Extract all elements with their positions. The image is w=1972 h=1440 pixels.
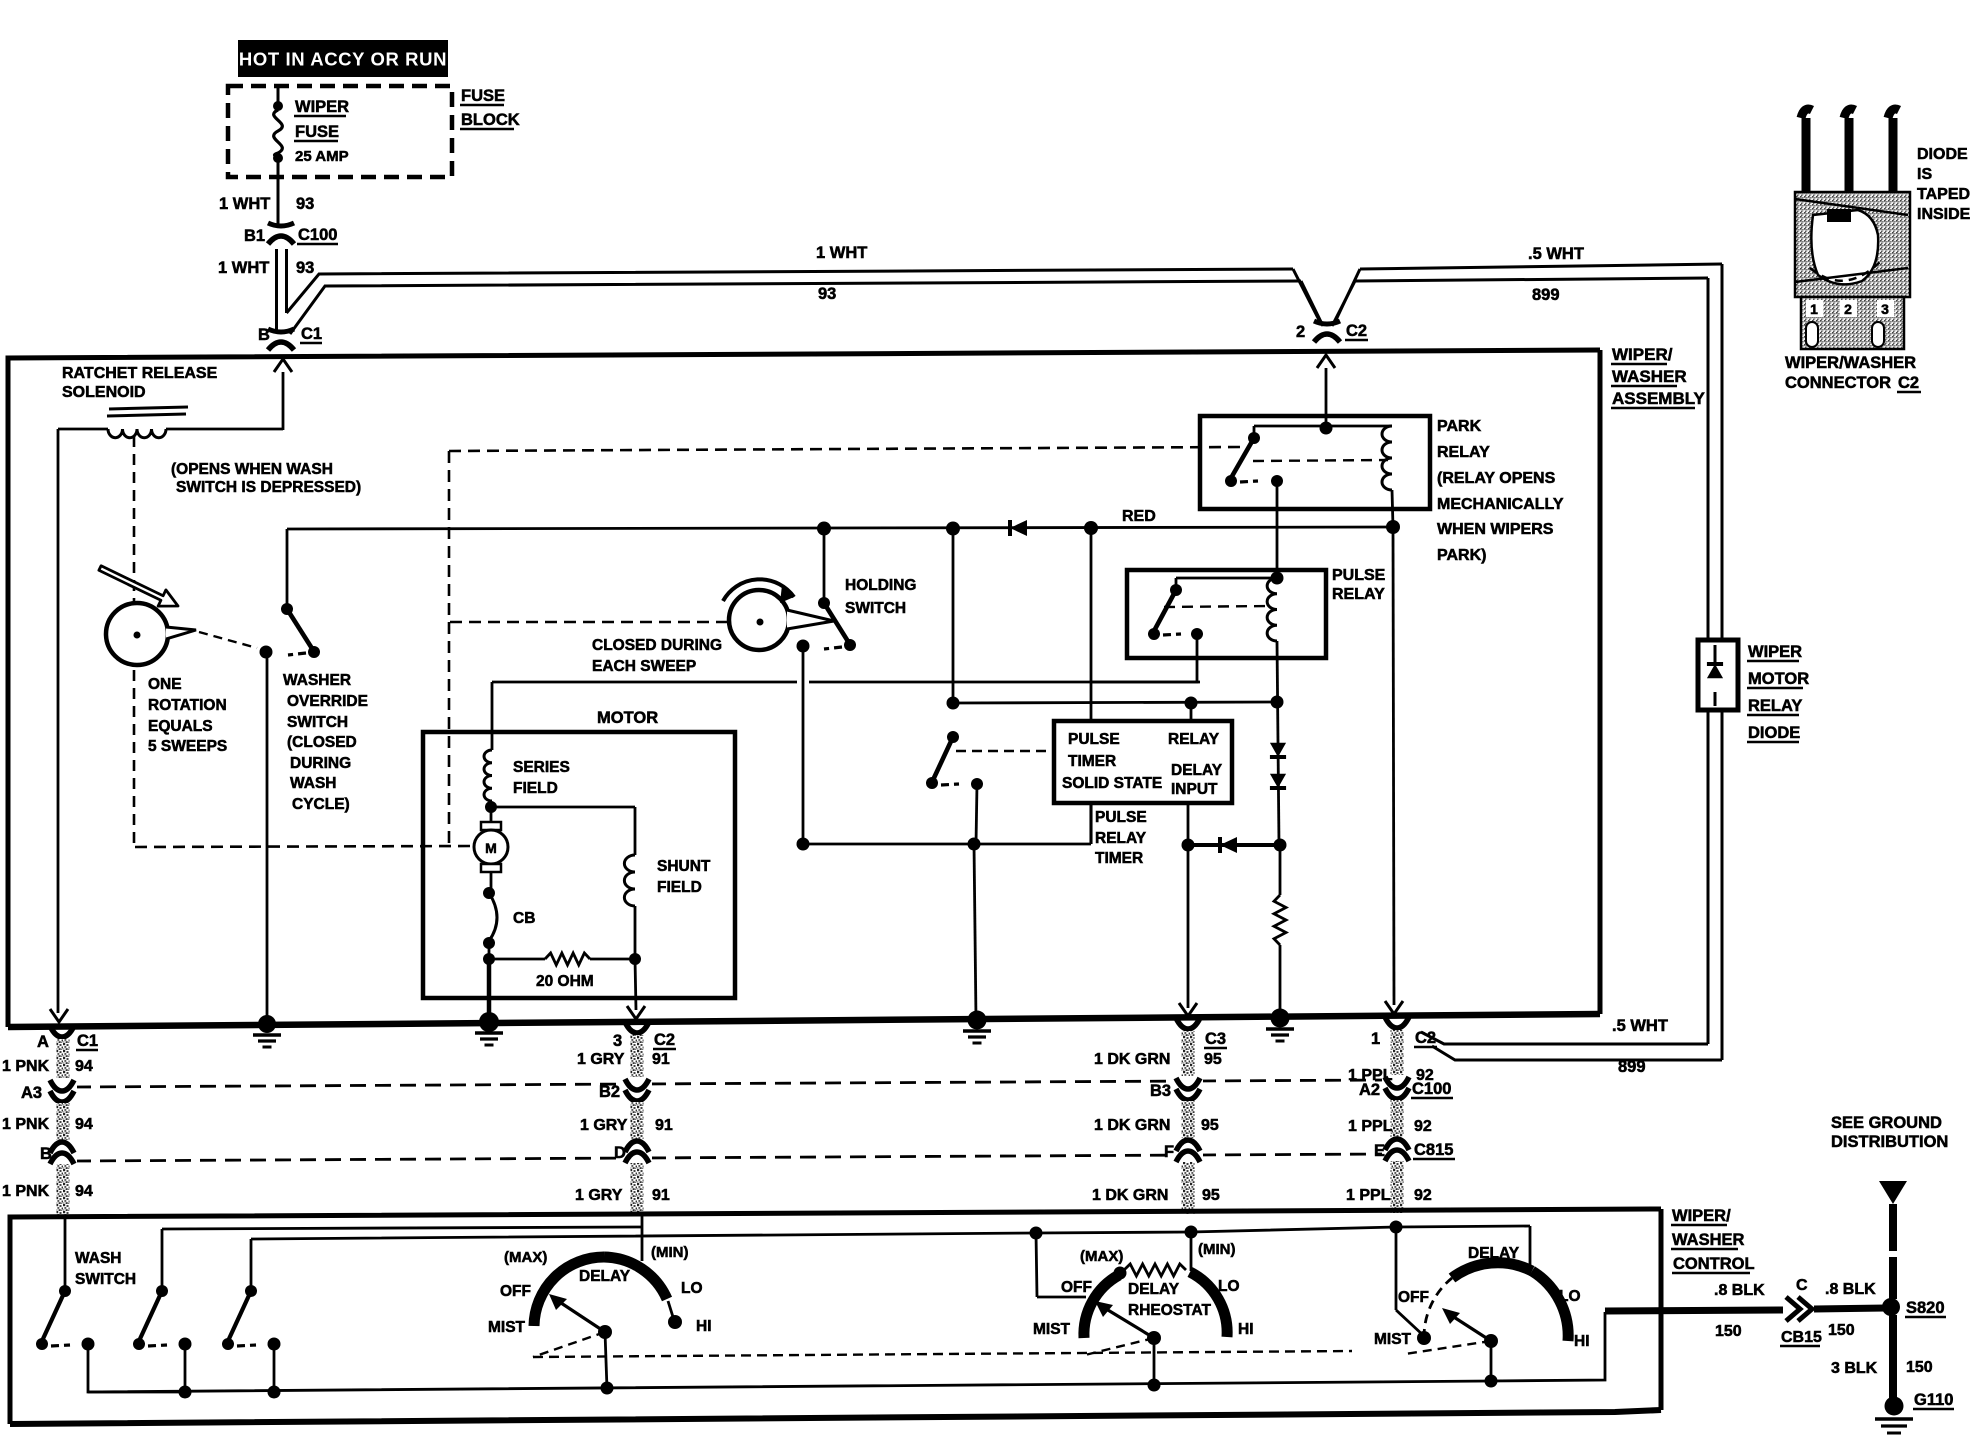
- svg-text:C2: C2: [1898, 374, 1919, 392]
- svg-text:2: 2: [1844, 301, 1852, 317]
- svg-text:HI: HI: [696, 1318, 712, 1335]
- splice S820: [1882, 1298, 1900, 1316]
- wire to ground x=977: [974, 844, 976, 1020]
- svg-text:IS: IS: [1917, 166, 1932, 183]
- rotary2 min wire: [1190, 1232, 1193, 1271]
- svg-text:3 BLK: 3 BLK: [1831, 1360, 1878, 1377]
- svg-text:FIELD: FIELD: [657, 879, 702, 896]
- svg-text:G110: G110: [1914, 1391, 1953, 1409]
- connector C3 (bottom): [1176, 1018, 1200, 1029]
- connector 2 C2: [1314, 321, 1340, 324]
- one rotation cam (clock): [106, 603, 168, 665]
- wire .8 BLK 150 output: [1605, 1310, 1783, 1311]
- svg-text:HI: HI: [1574, 1333, 1590, 1350]
- svg-text:SOLENOID: SOLENOID: [62, 384, 146, 401]
- svg-text:FUSE: FUSE: [461, 87, 505, 105]
- svg-text:C100: C100: [298, 226, 337, 244]
- svg-text:5 SWEEPS: 5 SWEEPS: [148, 738, 227, 755]
- svg-text:EQUALS: EQUALS: [148, 718, 213, 735]
- connector A C1 (bottom): [50, 1026, 74, 1037]
- connector C CB15: [1786, 1297, 1800, 1321]
- pulse relay coil to diodes: [1277, 641, 1279, 845]
- svg-text:RELAY: RELAY: [1748, 697, 1802, 715]
- svg-text:MOTOR: MOTOR: [1748, 670, 1809, 688]
- svg-text:RELAY: RELAY: [1168, 731, 1220, 748]
- rotary3 min wire: [1529, 1226, 1532, 1271]
- svg-text:C2: C2: [1346, 322, 1367, 340]
- bus from switch pole3 (to rotaries): [251, 1226, 1530, 1239]
- wiper fuse 25 AMP: [277, 86, 280, 103]
- rotary delay rheostat switch 2: [1036, 1233, 1037, 1297]
- svg-text:OFF: OFF: [500, 1283, 531, 1300]
- svg-text:92: 92: [1414, 1118, 1432, 1135]
- svg-text:150: 150: [1906, 1359, 1933, 1376]
- svg-text:899: 899: [1532, 286, 1560, 304]
- svg-text:93: 93: [818, 285, 836, 303]
- circuit breaker CB: [483, 887, 495, 899]
- connector F: [1173, 1138, 1203, 1164]
- svg-text:1 WHT: 1 WHT: [816, 244, 867, 262]
- svg-text:C1: C1: [77, 1032, 98, 1050]
- svg-text:93: 93: [296, 259, 314, 277]
- svg-text:B: B: [40, 1145, 52, 1163]
- svg-text:C1: C1: [301, 325, 322, 343]
- svg-text:1 PNK: 1 PNK: [2, 1183, 50, 1200]
- svg-text:EACH SWEEP: EACH SWEEP: [592, 658, 696, 675]
- svg-text:PULSE: PULSE: [1068, 731, 1120, 748]
- svg-text:F: F: [1164, 1143, 1174, 1161]
- wire delay line C with diode: [1188, 843, 1280, 847]
- svg-text:CONNECTOR: CONNECTOR: [1785, 374, 1891, 392]
- V dip into connector 2 C2: [1293, 269, 1320, 322]
- wire .5 WHT 899 bottom run to 1 C2: [1421, 1032, 1708, 1044]
- wire motor to ground: [487, 959, 492, 1022]
- svg-text:B3: B3: [1150, 1082, 1171, 1100]
- svg-text:1 DK GRN: 1 DK GRN: [1094, 1051, 1170, 1068]
- svg-text:TIMER: TIMER: [1095, 850, 1143, 867]
- label HOT IN ACCY OR RUN: [238, 40, 448, 77]
- svg-text:92: 92: [1416, 1067, 1434, 1084]
- connector row C100 (dashed): [75, 1080, 1384, 1087]
- svg-text:92: 92: [1414, 1187, 1432, 1204]
- svg-text:TIMER: TIMER: [1068, 753, 1116, 770]
- connector B: [47, 1140, 77, 1166]
- svg-text:SWITCH: SWITCH: [845, 600, 906, 617]
- connector B3: [1173, 1076, 1203, 1102]
- svg-text:95: 95: [1202, 1187, 1220, 1204]
- svg-text:E: E: [1374, 1142, 1385, 1160]
- svg-text:2: 2: [1296, 323, 1305, 341]
- svg-text:S820: S820: [1906, 1299, 1945, 1317]
- series field coil: [484, 750, 492, 801]
- svg-text:RHEOSTAT: RHEOSTAT: [1128, 1302, 1211, 1319]
- svg-text:CLOSED DURING: CLOSED DURING: [592, 637, 722, 654]
- svg-text:HOLDING: HOLDING: [845, 577, 916, 594]
- svg-text:FUSE: FUSE: [295, 123, 339, 141]
- svg-text:RELAY: RELAY: [1332, 586, 1385, 603]
- rotary2 needle: [1098, 1304, 1154, 1338]
- svg-text:899: 899: [1618, 1058, 1646, 1076]
- wire holding switch down: [802, 652, 805, 844]
- rotary3 dashed link: [1405, 1341, 1491, 1354]
- svg-text:150: 150: [1715, 1323, 1742, 1340]
- pulse timer switch S3: [947, 731, 959, 743]
- wire override to ground: [266, 658, 269, 1024]
- svg-text:C: C: [1796, 1277, 1808, 1294]
- svg-text:.8 BLK: .8 BLK: [1714, 1282, 1765, 1299]
- wire RED: [287, 527, 1393, 529]
- wiper/washer connector C2 pictorial: [1801, 109, 1812, 192]
- svg-text:WIPER: WIPER: [1748, 643, 1802, 661]
- svg-text:(MAX): (MAX): [504, 1249, 547, 1266]
- svg-text:.5 WHT: .5 WHT: [1612, 1017, 1668, 1035]
- svg-text:LO: LO: [681, 1280, 703, 1297]
- svg-text:1: 1: [1371, 1030, 1380, 1048]
- svg-text:CONTROL: CONTROL: [1673, 1255, 1755, 1273]
- svg-text:MOTOR: MOTOR: [597, 709, 658, 727]
- svg-text:SEE GROUND: SEE GROUND: [1831, 1114, 1942, 1132]
- pulse relay K2: [1127, 570, 1326, 658]
- resistor 20 OHM: [483, 953, 495, 965]
- bus from switch pole2 (to rotary1 min): [162, 1227, 642, 1229]
- connector E C815: [1382, 1137, 1412, 1163]
- svg-text:91: 91: [655, 1117, 673, 1134]
- svg-text:.5 WHT: .5 WHT: [1528, 245, 1584, 263]
- svg-text:PARK): PARK): [1437, 547, 1486, 564]
- rotation arrow arc: [723, 579, 794, 601]
- svg-text:94: 94: [75, 1116, 93, 1133]
- svg-text:ASSEMBLY: ASSEMBLY: [1612, 389, 1706, 408]
- dashed input to solid state: [956, 750, 1054, 752]
- connector 3 C2 (bottom): [625, 1022, 649, 1033]
- svg-text:RATCHET RELEASE: RATCHET RELEASE: [62, 365, 218, 382]
- svg-text:OFF: OFF: [1061, 1279, 1092, 1296]
- svg-text:INSIDE: INSIDE: [1917, 206, 1971, 223]
- svg-text:(MIN): (MIN): [651, 1244, 689, 1261]
- svg-text:1 PNK: 1 PNK: [2, 1116, 50, 1133]
- svg-text:RED: RED: [1122, 508, 1156, 525]
- park relay K1: [1200, 416, 1430, 509]
- svg-text:C815: C815: [1414, 1141, 1453, 1159]
- rotary1 needle: [552, 1297, 605, 1332]
- svg-text:WASH: WASH: [75, 1250, 122, 1267]
- wire motor feed (y=682): [492, 681, 797, 684]
- svg-text:94: 94: [75, 1058, 93, 1075]
- svg-text:RELAY: RELAY: [1437, 444, 1490, 461]
- rotary delay switch 1: [641, 1216, 644, 1261]
- wash switch pole 1: [64, 1216, 67, 1288]
- svg-text:3: 3: [613, 1032, 622, 1050]
- svg-text:DELAY: DELAY: [1128, 1281, 1180, 1298]
- svg-text:1 DK GRN: 1 DK GRN: [1092, 1187, 1168, 1204]
- wire DELAY INPUT down to C3: [1187, 803, 1190, 1008]
- svg-text:SOLID STATE: SOLID STATE: [1062, 775, 1162, 792]
- holding switch contacts S2: [823, 533, 826, 601]
- svg-text:PULSE: PULSE: [1332, 567, 1386, 584]
- svg-text:DISTRIBUTION: DISTRIBUTION: [1831, 1133, 1948, 1151]
- connector B2: [622, 1077, 652, 1103]
- svg-text:(OPENS WHEN WASH: (OPENS WHEN WASH: [171, 461, 333, 478]
- rotary3 needle: [1446, 1312, 1491, 1341]
- rotary1 dashed link: [533, 1332, 605, 1357]
- node on RED line: [817, 522, 831, 536]
- svg-text:WHEN WIPERS: WHEN WIPERS: [1437, 521, 1554, 538]
- resistor (pulse): [1274, 895, 1286, 945]
- svg-text:INPUT: INPUT: [1171, 781, 1218, 798]
- svg-text:ROTATION: ROTATION: [148, 697, 227, 714]
- diode pair: [1270, 743, 1286, 757]
- svg-text:150: 150: [1828, 1322, 1855, 1339]
- svg-text:SWITCH: SWITCH: [75, 1271, 136, 1288]
- washer override switch S1: [286, 529, 289, 606]
- wash switch pole 2: [161, 1229, 164, 1288]
- svg-text:(RELAY OPENS: (RELAY OPENS: [1437, 470, 1556, 487]
- wire to A C1 (left): [57, 429, 60, 1013]
- svg-text:DIODE: DIODE: [1917, 146, 1968, 163]
- svg-text:DELAY: DELAY: [1171, 762, 1223, 779]
- diode on RED line: [1010, 520, 1027, 536]
- svg-text:1 GRY: 1 GRY: [577, 1051, 625, 1068]
- svg-text:WIPER/WASHER: WIPER/WASHER: [1785, 354, 1916, 372]
- holding switch needle: [787, 610, 834, 629]
- connector 1 C2 (bottom): [1385, 1017, 1409, 1028]
- pulse relay coil: [1267, 578, 1277, 641]
- svg-text:C2: C2: [654, 1031, 675, 1049]
- svg-text:DELAY: DELAY: [1468, 1245, 1520, 1262]
- connector row C815 (dashed): [75, 1154, 1385, 1161]
- svg-text:1 PPL: 1 PPL: [1348, 1067, 1393, 1084]
- arrow into 2 C2: [1325, 368, 1328, 416]
- svg-text:1 WHT: 1 WHT: [219, 195, 270, 213]
- svg-text:1 WHT: 1 WHT: [218, 259, 269, 277]
- svg-text:MECHANICALLY: MECHANICALLY: [1437, 496, 1564, 513]
- connector B C1: [268, 329, 294, 332]
- svg-text:94: 94: [75, 1183, 93, 1200]
- shunt field coil: [491, 806, 635, 809]
- wire .5 WHT 899 vertical (right side): [1721, 264, 1724, 1060]
- svg-text:95: 95: [1204, 1051, 1222, 1068]
- svg-text:B1: B1: [244, 227, 265, 245]
- svg-text:1 PPL: 1 PPL: [1348, 1118, 1393, 1135]
- svg-text:B: B: [258, 326, 270, 344]
- svg-text:C2: C2: [1415, 1029, 1436, 1047]
- park relay coil: [1382, 426, 1392, 490]
- wire .8 BLK 150 (right): [1814, 1308, 1886, 1309]
- wiper/washer assembly box: [8, 350, 1600, 1027]
- arrow into B C1: [282, 372, 285, 430]
- rotary2 dashed link: [1085, 1338, 1154, 1355]
- svg-text:(MIN): (MIN): [1198, 1241, 1236, 1258]
- dashed link solenoid to wash mechanism: [133, 436, 136, 847]
- wire x=1091 RED to solid state: [1090, 528, 1093, 721]
- svg-text:TAPED: TAPED: [1917, 186, 1970, 203]
- svg-text:1 PPL: 1 PPL: [1346, 1187, 1391, 1204]
- svg-text:25 AMP: 25 AMP: [295, 148, 349, 165]
- svg-text:ONE: ONE: [148, 676, 182, 693]
- svg-text:1 GRY: 1 GRY: [575, 1187, 623, 1204]
- svg-text:OVERRIDE: OVERRIDE: [287, 693, 368, 710]
- svg-text:1 GRY: 1 GRY: [580, 1117, 628, 1134]
- wire 1 WHT 93 long run to C2 (double line): [287, 269, 1294, 313]
- wire pulse relay contact down-left: [1091, 634, 1197, 682]
- lightning arrow: [99, 566, 178, 606]
- ground distribution bus: [1879, 1181, 1907, 1204]
- svg-text:3: 3: [1881, 301, 1889, 317]
- svg-text:BLOCK: BLOCK: [461, 111, 520, 129]
- connector A2 C100: [1382, 1075, 1412, 1101]
- svg-text:DURING: DURING: [290, 755, 351, 772]
- dashed link in park relay: [1253, 460, 1388, 461]
- svg-text:WASHER: WASHER: [283, 672, 351, 689]
- svg-text:WIPER/: WIPER/: [1672, 1207, 1731, 1225]
- svg-text:20 OHM: 20 OHM: [536, 973, 594, 990]
- svg-text:RELAY: RELAY: [1095, 830, 1147, 847]
- wiper motor relay diode D1: [1698, 640, 1738, 710]
- svg-text:B2: B2: [599, 1083, 620, 1101]
- svg-text:SERIES: SERIES: [513, 759, 570, 776]
- svg-text:M: M: [485, 840, 497, 856]
- wire relay drive (y=703): [952, 528, 955, 703]
- svg-text:MIST: MIST: [488, 1319, 526, 1336]
- connector D: [622, 1139, 652, 1165]
- svg-text:FIELD: FIELD: [513, 780, 558, 797]
- holding switch cam: [729, 590, 789, 650]
- wash switch pole 3: [250, 1239, 253, 1288]
- svg-text:HOT IN ACCY OR RUN: HOT IN ACCY OR RUN: [239, 49, 447, 70]
- svg-text:95: 95: [1201, 1117, 1219, 1134]
- rotary delay switch 3: [1395, 1227, 1398, 1310]
- svg-text:PARK: PARK: [1437, 418, 1482, 435]
- svg-text:DELAY: DELAY: [579, 1268, 631, 1285]
- svg-text:WIPER/: WIPER/: [1612, 345, 1673, 364]
- motor box: [423, 732, 735, 998]
- svg-text:OFF: OFF: [1398, 1289, 1429, 1306]
- svg-text:(CLOSED: (CLOSED: [287, 734, 357, 751]
- svg-text:WASHER: WASHER: [1612, 367, 1687, 386]
- svg-text:91: 91: [652, 1187, 670, 1204]
- svg-text:CYCLE): CYCLE): [292, 796, 350, 813]
- svg-text:MIST: MIST: [1033, 1321, 1071, 1338]
- wiper/washer control box: [10, 1209, 1661, 1424]
- svg-text:SWITCH: SWITCH: [287, 714, 348, 731]
- fuse block (dashed box): [228, 86, 452, 177]
- ground G110: [1885, 1397, 1904, 1416]
- motor M: [490, 801, 493, 822]
- wire park relay to 1 C2: [1393, 527, 1394, 1005]
- svg-text:CB15: CB15: [1781, 1329, 1822, 1346]
- svg-text:1: 1: [1810, 301, 1818, 317]
- svg-text:A3: A3: [21, 1084, 42, 1102]
- svg-text:DIODE: DIODE: [1748, 724, 1800, 742]
- svg-text:LO: LO: [1218, 1278, 1240, 1295]
- svg-text:93: 93: [296, 195, 314, 213]
- cam needle: [166, 627, 196, 639]
- dashed link in pulse relay: [1164, 606, 1270, 607]
- svg-text:D: D: [614, 1144, 626, 1162]
- rotary1 wiper to bus: [605, 1332, 607, 1389]
- svg-text:1 DK GRN: 1 DK GRN: [1094, 1117, 1170, 1134]
- svg-text:.8 BLK: .8 BLK: [1825, 1281, 1876, 1298]
- svg-text:WASHER: WASHER: [1672, 1231, 1745, 1249]
- svg-text:1 PNK: 1 PNK: [2, 1058, 50, 1075]
- svg-text:LO: LO: [1559, 1288, 1581, 1305]
- svg-text:WIPER: WIPER: [295, 98, 349, 116]
- connector B1 C100: [268, 223, 294, 226]
- mechanical dashed bus: [533, 1351, 1352, 1357]
- dashed link needle to washer override: [199, 632, 257, 648]
- svg-text:(MAX): (MAX): [1080, 1248, 1123, 1265]
- wire shunt to 3 C2: [635, 959, 636, 1010]
- pulse timer solid state box U1: [1054, 721, 1232, 803]
- wire y=844 to pulse relay timer: [797, 838, 810, 851]
- svg-text:MIST: MIST: [1374, 1331, 1412, 1348]
- wire park relay switch to pulse relay: [1276, 481, 1279, 578]
- svg-text:C3: C3: [1205, 1030, 1226, 1048]
- lower common bus: [88, 1312, 1605, 1392]
- svg-text:SWITCH IS DEPRESSED): SWITCH IS DEPRESSED): [176, 479, 361, 496]
- svg-text:SHUNT: SHUNT: [657, 858, 711, 875]
- svg-text:WASH: WASH: [290, 775, 337, 792]
- svg-text:A: A: [37, 1033, 49, 1051]
- connector A3: [47, 1078, 77, 1104]
- dashed linkage (wash cycle): [449, 447, 1240, 451]
- svg-text:91: 91: [652, 1051, 670, 1068]
- svg-text:CB: CB: [513, 910, 535, 927]
- svg-text:HI: HI: [1238, 1321, 1254, 1338]
- svg-text:PULSE: PULSE: [1095, 809, 1147, 826]
